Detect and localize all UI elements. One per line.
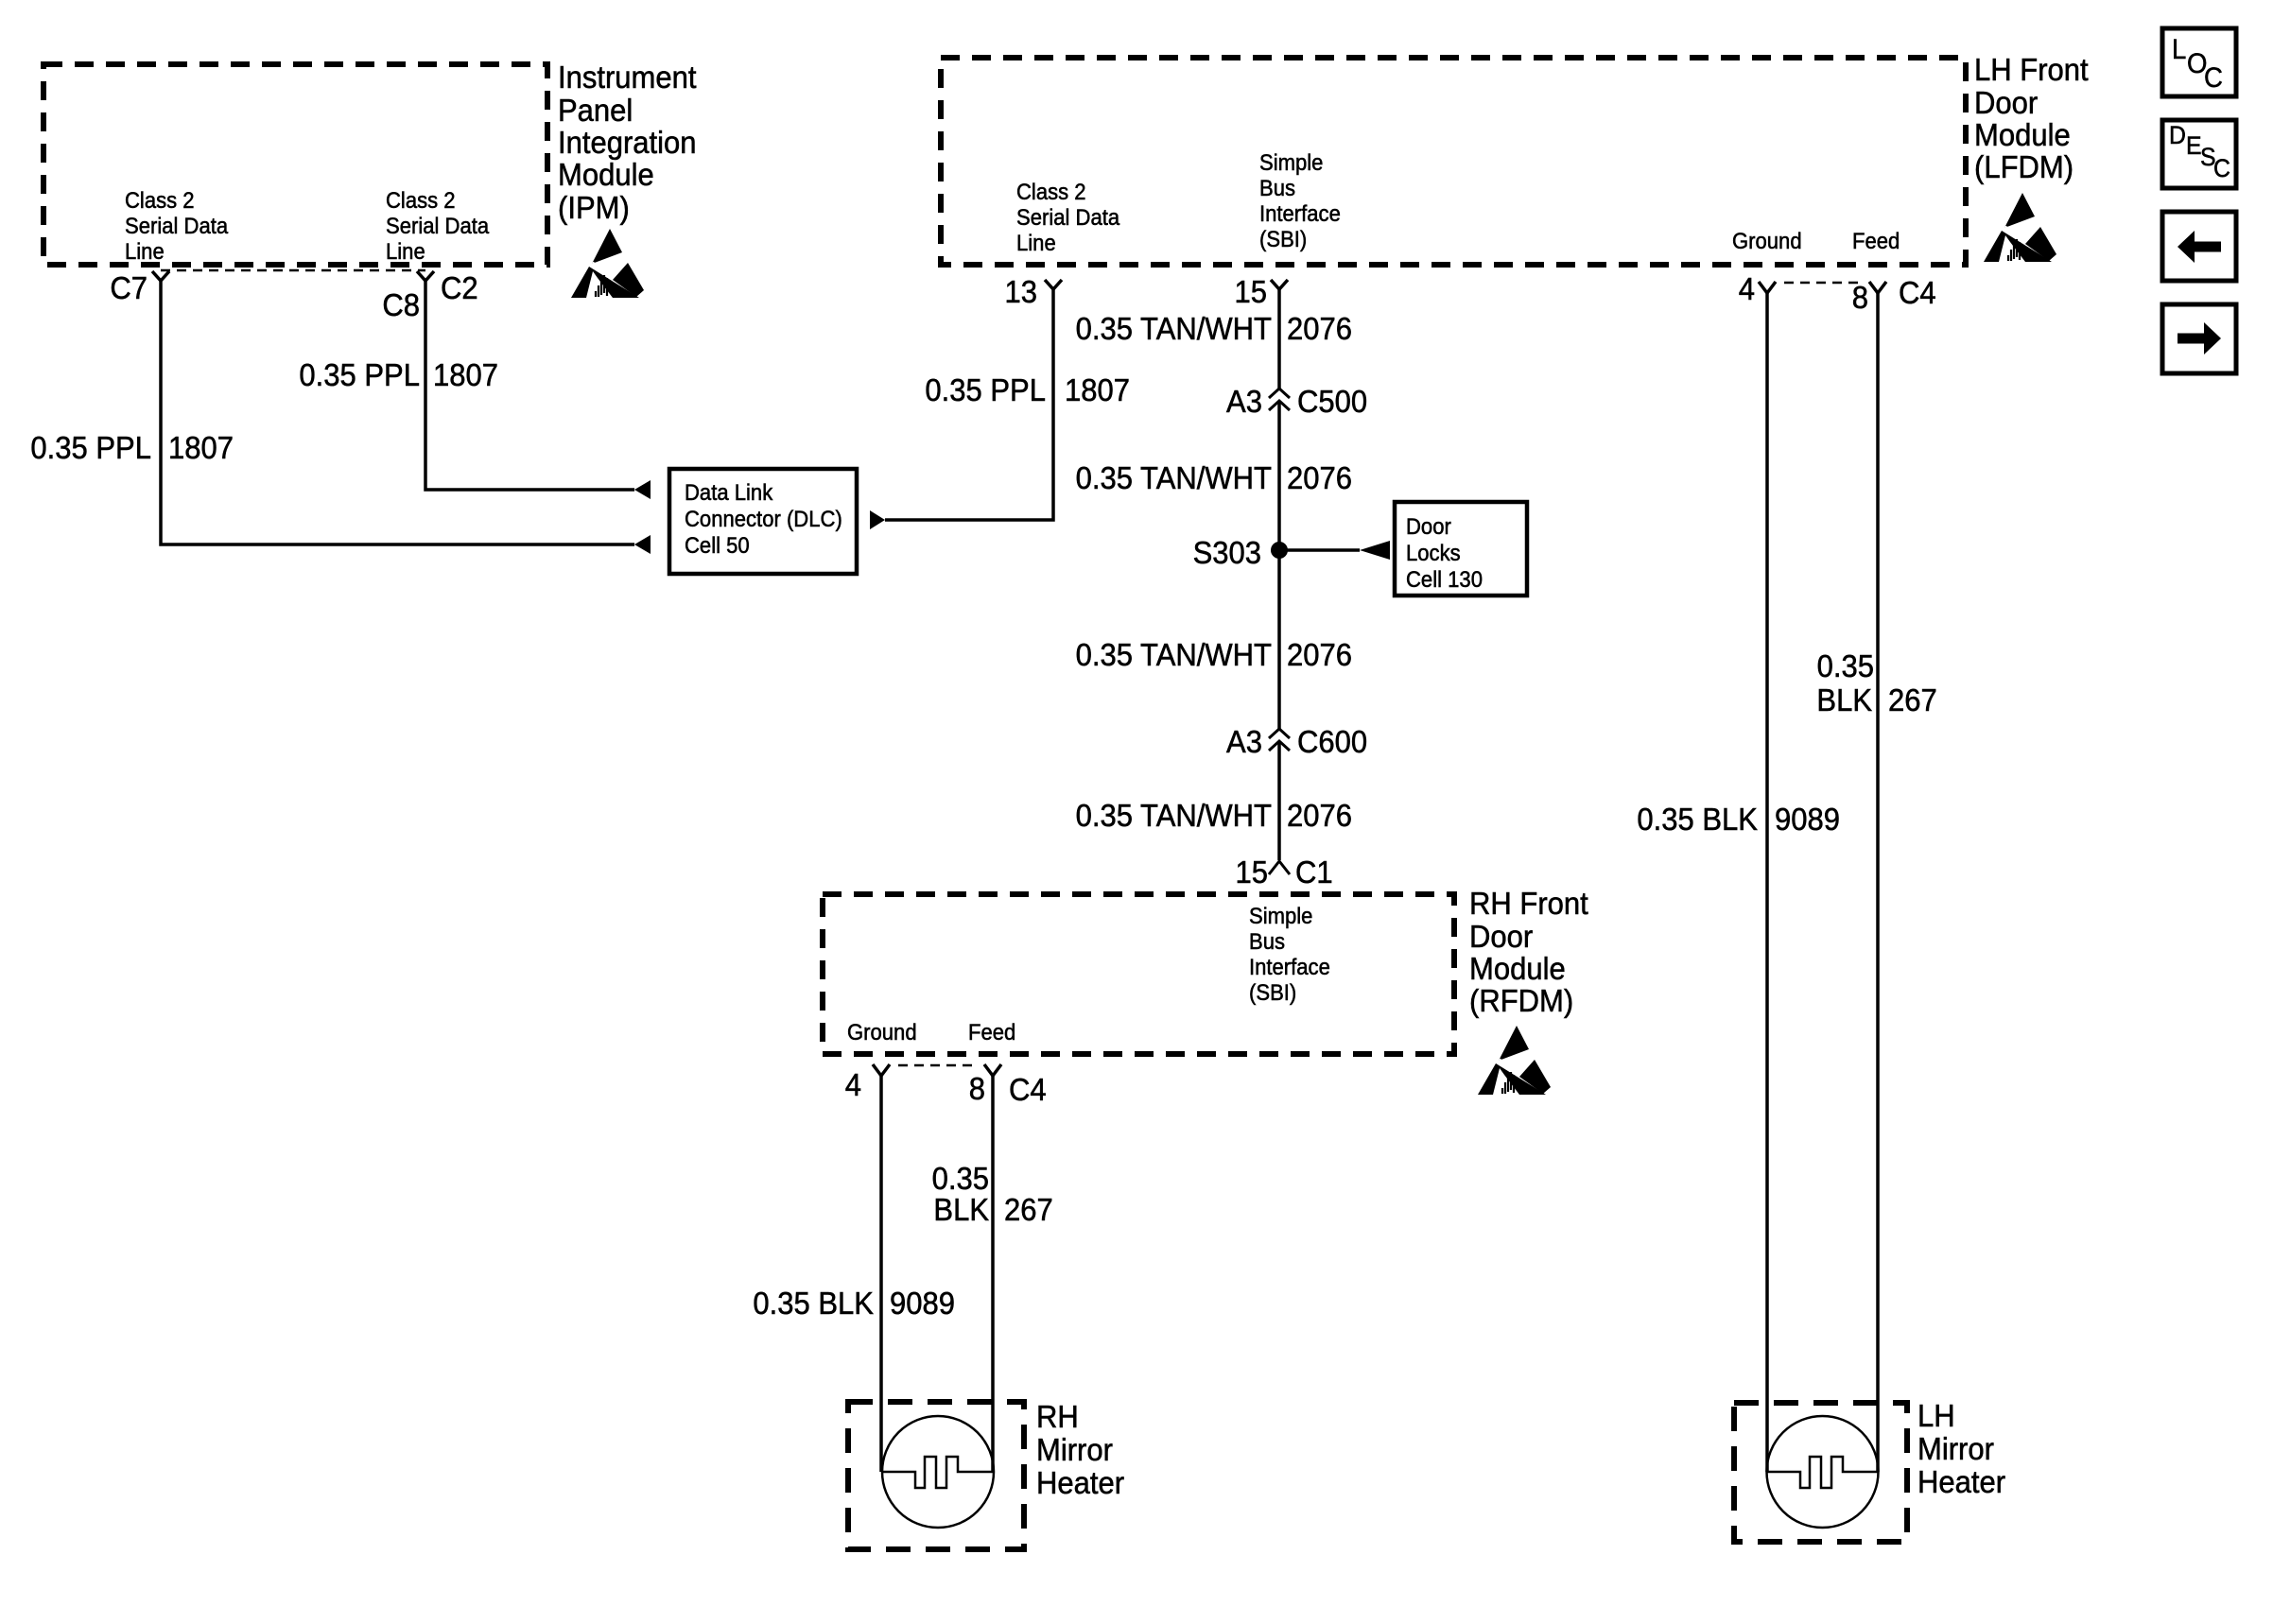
svg-text:Ground: Ground	[847, 1019, 917, 1045]
svg-text:0.35 TAN/WHT: 0.35 TAN/WHT	[1076, 311, 1272, 346]
svg-text:0.35 PPL: 0.35 PPL	[299, 357, 420, 392]
svg-text:4: 4	[1739, 271, 1755, 306]
legend LOC box	[2162, 28, 2236, 96]
svg-text:0.35 PPL: 0.35 PPL	[925, 372, 1046, 407]
IPM label Class 2 Serial Data Line (left)	[125, 187, 228, 264]
pin 8 (RFDM feed)	[969, 1064, 1047, 1107]
svg-text:2076: 2076	[1287, 311, 1352, 346]
svg-text:BLK: BLK	[933, 1192, 989, 1227]
ESD symbol LFDM	[1984, 193, 2056, 262]
svg-text:Line: Line	[1016, 230, 1056, 255]
wire RFDM ground to RH mirror heater (0.35 BLK 9089)	[879, 1076, 883, 1472]
svg-text:15: 15	[1235, 855, 1268, 890]
svg-text:Door: Door	[1469, 919, 1534, 954]
LFDM title text	[1974, 52, 2089, 184]
svg-text:0.35 BLK: 0.35 BLK	[1637, 802, 1758, 837]
svg-text:0.35: 0.35	[1817, 648, 1874, 683]
trunk wire pin 15 to C500 (0.35 TAN/WHT 2076)	[1277, 289, 1281, 389]
svg-text:Serial Data: Serial Data	[1016, 204, 1119, 230]
svg-text:267: 267	[1004, 1192, 1053, 1227]
pin 13	[1004, 274, 1062, 309]
arrowhead at DLC upper-left	[634, 480, 651, 499]
svg-text:E: E	[2186, 132, 2202, 160]
RFDM connector bar 4-8	[898, 1064, 979, 1067]
svg-text:C2: C2	[441, 270, 478, 305]
module LFDM box	[941, 58, 1966, 265]
svg-text:C600: C600	[1297, 724, 1367, 759]
svg-text:8: 8	[1852, 280, 1868, 315]
module RFDM box	[823, 894, 1454, 1054]
svg-text:S303: S303	[1193, 535, 1261, 570]
svg-text:Instrument: Instrument	[558, 60, 697, 95]
svg-text:(IPM): (IPM)	[558, 190, 630, 225]
arrowhead Door Locks	[1360, 541, 1390, 560]
svg-text:A3: A3	[1226, 724, 1262, 759]
svg-text:Simple: Simple	[1259, 149, 1323, 175]
svg-text:Class 2: Class 2	[1016, 179, 1086, 204]
wire S303 to Door Locks	[1279, 548, 1360, 552]
svg-text:0.35 TAN/WHT: 0.35 TAN/WHT	[1076, 460, 1272, 495]
wire LFDM feed to LH mirror heater (0.35 BLK 267)	[1876, 293, 1880, 1472]
svg-text:Class 2: Class 2	[386, 187, 456, 213]
svg-text:Cell 50: Cell 50	[685, 532, 750, 558]
LFDM label Class 2 Serial Data Line	[1016, 179, 1119, 255]
pin C7	[110, 270, 169, 305]
svg-text:Module: Module	[558, 157, 654, 192]
wire C2 to DLC (0.35 PPL 1807)	[425, 281, 634, 490]
svg-text:0.35 BLK: 0.35 BLK	[753, 1286, 874, 1321]
RFDM label Ground	[847, 1019, 917, 1045]
legend left-arrow box	[2162, 212, 2236, 281]
svg-text:Connector (DLC): Connector (DLC)	[685, 506, 842, 531]
svg-text:Mirror: Mirror	[1917, 1431, 1994, 1466]
RH mirror heater title	[1036, 1399, 1124, 1500]
arrowhead at DLC lower-left	[634, 535, 651, 554]
trunk wire C600 to pin 15 C1 (0.35 TAN/WHT 2076)	[1277, 741, 1281, 860]
svg-text:Line: Line	[386, 238, 425, 264]
svg-text:LH: LH	[1917, 1398, 1955, 1433]
svg-text:Interface: Interface	[1249, 954, 1330, 979]
RH heater element	[882, 1457, 994, 1488]
wire RFDM feed to RH mirror heater (0.35 BLK 267)	[991, 1076, 995, 1472]
svg-text:8: 8	[969, 1071, 985, 1106]
svg-text:2076: 2076	[1287, 798, 1352, 833]
trunk wire S303 to C600 (0.35 TAN/WHT 2076)	[1277, 550, 1281, 729]
svg-text:13: 13	[1004, 274, 1037, 309]
svg-text:267: 267	[1888, 682, 1937, 717]
svg-text:4: 4	[845, 1067, 861, 1102]
svg-text:Module: Module	[1974, 117, 2071, 152]
svg-text:C: C	[2204, 62, 2223, 94]
svg-text:Locks: Locks	[1406, 540, 1461, 565]
svg-text:RH Front: RH Front	[1469, 886, 1588, 921]
svg-text:C1: C1	[1295, 855, 1333, 890]
svg-text:Simple: Simple	[1249, 903, 1312, 928]
LH mirror heater box	[1734, 1403, 1907, 1542]
trunk wire C500 to splice S303 (0.35 TAN/WHT 2076)	[1277, 401, 1281, 550]
svg-text:D: D	[2169, 122, 2186, 149]
svg-text:2076: 2076	[1287, 637, 1352, 672]
svg-text:0.35 TAN/WHT: 0.35 TAN/WHT	[1076, 637, 1272, 672]
svg-text:9089: 9089	[890, 1286, 955, 1321]
LFDM label Feed	[1852, 228, 1900, 253]
pin 4 (RFDM ground)	[845, 1064, 890, 1102]
legend right-arrow box	[2162, 304, 2236, 373]
splice S303	[1193, 535, 1288, 570]
svg-text:C500: C500	[1297, 384, 1367, 419]
svg-text:Bus: Bus	[1259, 175, 1295, 200]
svg-text:C4: C4	[1899, 275, 1936, 310]
LH heater element	[1767, 1457, 1878, 1488]
svg-text:15: 15	[1234, 274, 1267, 309]
svg-text:Serial Data: Serial Data	[125, 213, 228, 238]
svg-text:Module: Module	[1469, 951, 1566, 986]
svg-text:Cell 130: Cell 130	[1406, 566, 1483, 592]
svg-text:(SBI): (SBI)	[1249, 979, 1296, 1005]
svg-text:Heater: Heater	[1036, 1465, 1124, 1500]
LFDM label Ground	[1732, 228, 1802, 253]
pin 8 (LFDM feed)	[1852, 275, 1936, 315]
ESD symbol RFDM	[1478, 1026, 1551, 1095]
RH mirror heater box	[848, 1402, 1024, 1549]
svg-text:9089: 9089	[1775, 802, 1840, 837]
box Data Link Connector (DLC) Cell 50	[669, 469, 857, 574]
svg-text:Door: Door	[1406, 513, 1451, 539]
svg-text:1807: 1807	[433, 357, 498, 392]
svg-text:L: L	[2172, 34, 2186, 65]
svg-text:Line: Line	[125, 238, 165, 264]
svg-text:Mirror: Mirror	[1036, 1432, 1113, 1467]
arrowhead DLC right output	[870, 510, 885, 529]
svg-text:0.35 TAN/WHT: 0.35 TAN/WHT	[1076, 798, 1272, 833]
svg-text:A3: A3	[1226, 384, 1262, 419]
inline connector A3 C500	[1226, 384, 1367, 419]
RH mirror heater circle	[882, 1416, 994, 1528]
svg-text:C7: C7	[110, 270, 147, 305]
svg-text:Feed: Feed	[1852, 228, 1900, 253]
svg-text:1807: 1807	[168, 430, 234, 465]
RFDM label Simple Bus Interface (SBI)	[1249, 903, 1330, 1005]
module IPM box	[43, 64, 547, 265]
wire DLC to pin 13 (0.35 PPL 1807)	[885, 289, 1053, 520]
wire LFDM ground to LH mirror heater (0.35 BLK 9089)	[1765, 293, 1769, 1472]
svg-text:(RFDM): (RFDM)	[1469, 983, 1573, 1018]
svg-text:Door: Door	[1974, 85, 2039, 120]
svg-text:0.35 PPL: 0.35 PPL	[30, 430, 151, 465]
svg-text:LH Front: LH Front	[1974, 52, 2089, 87]
inline connector A3 C600	[1226, 724, 1367, 759]
LFDM label Simple Bus Interface (SBI)	[1259, 149, 1341, 251]
svg-text:C: C	[2213, 155, 2230, 182]
svg-text:Heater: Heater	[1917, 1464, 2005, 1499]
ESD symbol IPM	[571, 229, 644, 298]
svg-text:Data Link: Data Link	[685, 479, 773, 505]
svg-text:(LFDM): (LFDM)	[1974, 149, 2073, 184]
IPM label Class 2 Serial Data Line (right)	[386, 187, 489, 264]
wire C7 to DLC (0.35 PPL 1807)	[161, 281, 634, 544]
wire label 0.35 PPL 1807 (C7 wire)	[30, 430, 234, 465]
pin 15 (LFDM)	[1234, 274, 1288, 309]
IPM connector bar C7-C8	[161, 269, 425, 272]
svg-text:Bus: Bus	[1249, 928, 1285, 954]
svg-text:Feed: Feed	[968, 1019, 1015, 1045]
wire label 0.35 PPL 1807 (pin 13 wire)	[925, 372, 1130, 407]
svg-text:Integration: Integration	[558, 125, 697, 160]
svg-text:Panel: Panel	[558, 93, 633, 128]
svg-text:Ground: Ground	[1732, 228, 1802, 253]
svg-text:Class 2: Class 2	[125, 187, 195, 213]
wire label 0.35 PPL 1807 (C2 wire)	[299, 357, 498, 392]
svg-text:1807: 1807	[1065, 372, 1130, 407]
box Door Locks Cell 130	[1395, 502, 1527, 596]
RFDM label Feed	[968, 1019, 1015, 1045]
IPM title text	[558, 60, 697, 225]
LH mirror heater title	[1917, 1398, 2005, 1499]
svg-text:(SBI): (SBI)	[1259, 226, 1307, 251]
svg-text:2076: 2076	[1287, 460, 1352, 495]
legend DESC box	[2162, 120, 2236, 188]
svg-text:Interface: Interface	[1259, 200, 1341, 226]
RFDM title text	[1469, 886, 1588, 1018]
svg-text:Serial Data: Serial Data	[386, 213, 489, 238]
LH mirror heater circle	[1767, 1416, 1879, 1528]
pin 15 C1 (RFDM)	[1235, 855, 1332, 890]
svg-text:BLK: BLK	[1816, 682, 1872, 717]
pin C8 / C2	[382, 270, 477, 322]
svg-text:0.35: 0.35	[932, 1161, 989, 1196]
svg-text:RH: RH	[1036, 1399, 1079, 1434]
pin 4 (LFDM ground)	[1739, 271, 1776, 306]
svg-text:C8: C8	[382, 287, 420, 322]
LFDM connector bar 4-8	[1784, 282, 1865, 285]
svg-text:C4: C4	[1009, 1072, 1047, 1107]
